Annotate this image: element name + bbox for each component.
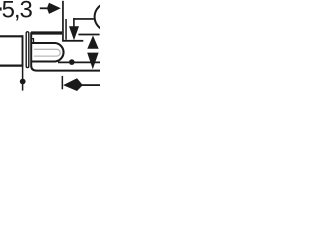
svg-text:5,3: 5,3 (2, 0, 33, 23)
